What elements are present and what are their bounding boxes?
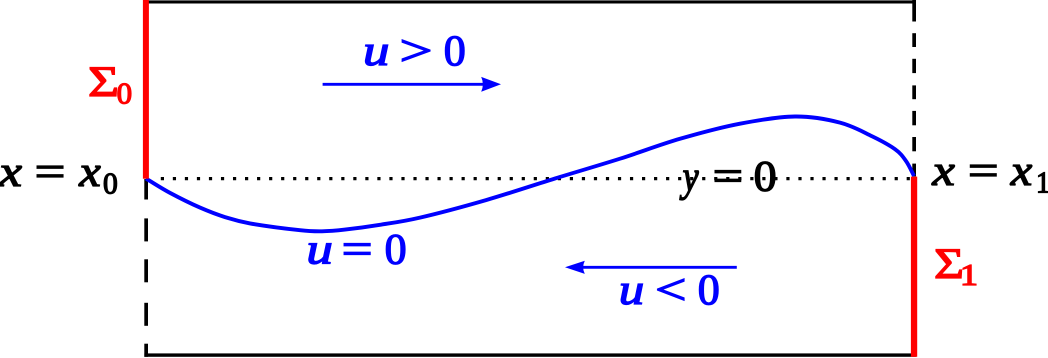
svg-text:=: = <box>35 149 66 196</box>
svg-text:y: y <box>679 154 699 201</box>
svg-text:0: 0 <box>754 154 777 201</box>
svg-text:=: = <box>713 154 744 201</box>
arrow u>0 head <box>481 77 501 92</box>
frame top edge <box>144 0 916 3</box>
svg-text:0: 0 <box>103 166 118 201</box>
svg-text:<: < <box>655 267 687 314</box>
dotted line y=0 <box>161 177 910 180</box>
frame right dashed edge <box>912 0 916 176</box>
arrow u<0 shaft <box>583 266 737 269</box>
arrow u>0 shaft <box>323 83 483 86</box>
label y = 0 <box>679 154 776 201</box>
label x = x0 <box>0 149 118 201</box>
svg-text:1: 1 <box>960 257 978 292</box>
svg-text:u: u <box>306 227 333 274</box>
svg-text:0: 0 <box>444 28 466 75</box>
frame bottom edge <box>144 353 916 356</box>
svg-text:>: > <box>400 28 433 75</box>
svg-text:x: x <box>931 148 955 195</box>
svg-text:x: x <box>0 149 22 196</box>
frame left dashed edge <box>144 179 148 357</box>
blue curve u=0 level set <box>146 116 914 231</box>
label x = x1 <box>931 148 1048 200</box>
label u = 0 <box>306 227 406 274</box>
svg-text:=: = <box>968 148 999 195</box>
svg-text:u: u <box>619 267 645 314</box>
label u > 0 <box>363 28 466 75</box>
svg-text:0: 0 <box>117 76 133 111</box>
arrow u<0 head <box>565 261 585 274</box>
label u < 0 <box>619 267 720 314</box>
red boundary Sigma0 (left upper) <box>143 0 149 179</box>
svg-text:Σ: Σ <box>88 59 119 106</box>
red boundary Sigma1 (right lower) <box>911 177 917 357</box>
label Sigma1 <box>934 241 978 292</box>
svg-text:x: x <box>78 149 101 196</box>
svg-text:0: 0 <box>385 227 407 274</box>
label Sigma0 <box>88 59 132 111</box>
svg-text:x: x <box>1010 148 1033 195</box>
svg-text:u: u <box>363 28 390 75</box>
svg-text:=: = <box>342 227 373 274</box>
svg-text:1: 1 <box>1036 165 1048 200</box>
svg-text:0: 0 <box>698 267 720 314</box>
